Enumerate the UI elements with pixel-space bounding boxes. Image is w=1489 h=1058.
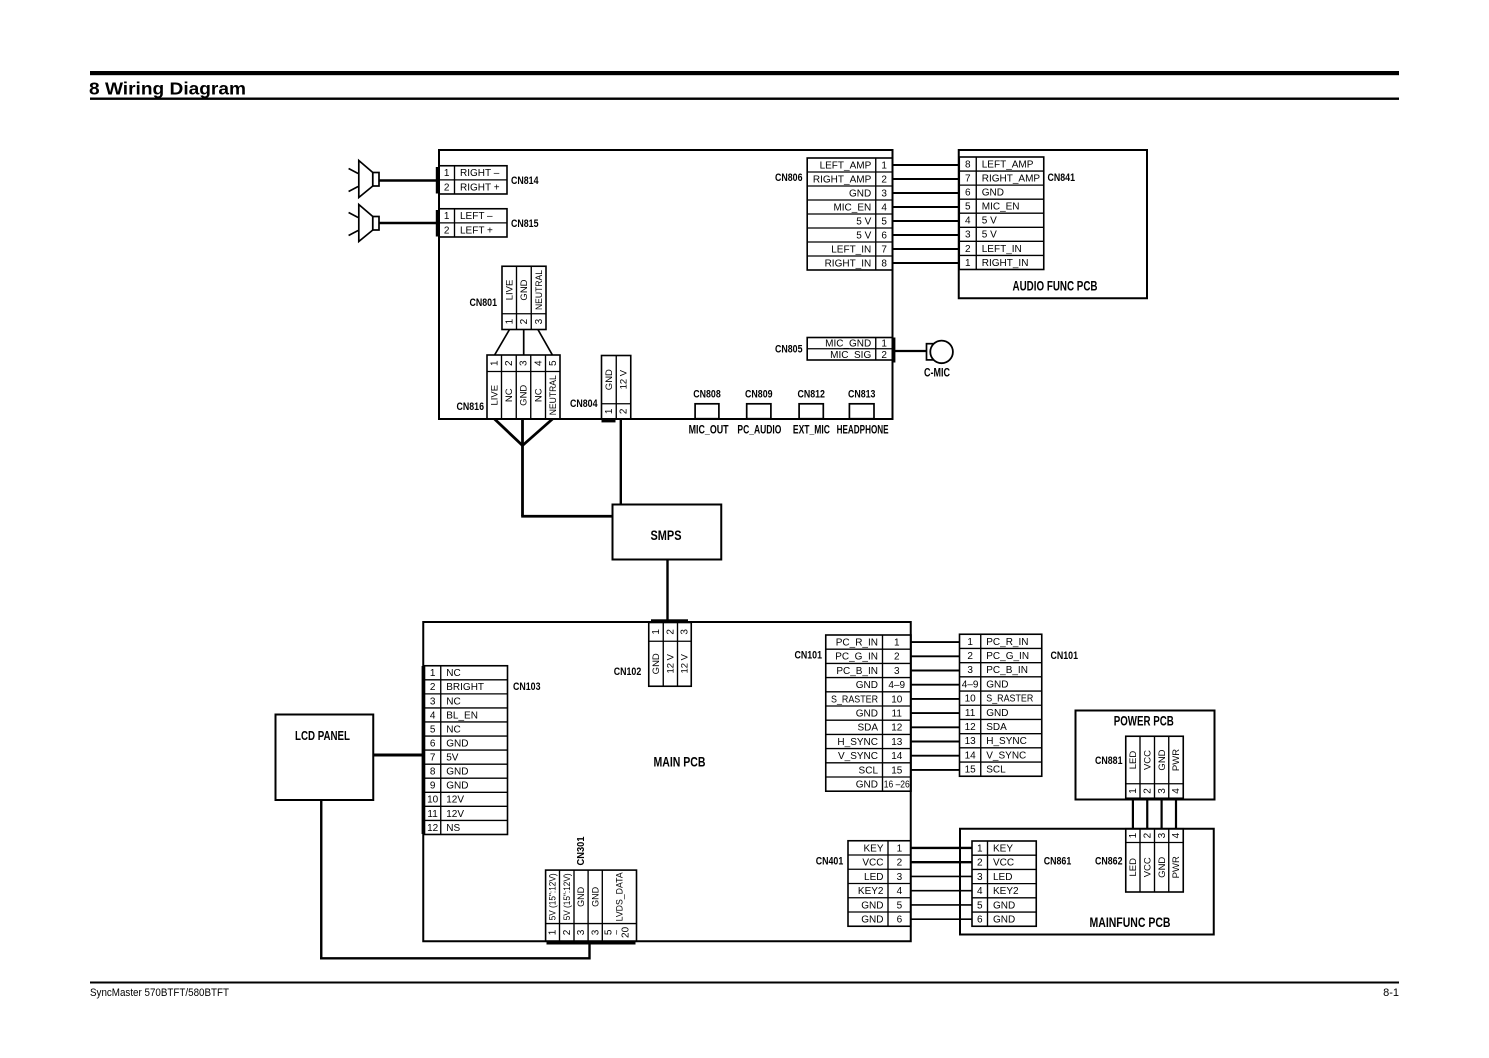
svg-text:SCL: SCL	[859, 765, 879, 776]
svg-text:NS: NS	[446, 823, 460, 834]
svg-text:PC_B_IN: PC_B_IN	[986, 665, 1028, 676]
svg-text:NC: NC	[446, 724, 460, 735]
svg-text:LIVE: LIVE	[504, 280, 515, 301]
svg-text:RIGHT +: RIGHT +	[460, 182, 500, 193]
svg-text:NC: NC	[533, 388, 544, 402]
svg-text:GND: GND	[986, 679, 1008, 690]
svg-text:16 –26: 16 –26	[884, 780, 910, 791]
connector CN862	[1126, 829, 1184, 892]
svg-text:12 V: 12 V	[619, 369, 630, 389]
svg-text:CN841: CN841	[1048, 172, 1076, 184]
svg-text:PWR: PWR	[1171, 749, 1182, 771]
svg-text:1: 1	[881, 160, 887, 171]
svg-text:5: 5	[977, 900, 983, 911]
speaker right channel	[349, 161, 379, 198]
svg-text:CN801: CN801	[470, 297, 498, 309]
page title: 8 Wiring Diagram	[89, 79, 246, 99]
svg-text:2: 2	[897, 858, 903, 869]
wire speaker right to CN814	[379, 179, 438, 181]
wire CN804 to SMPS	[620, 420, 622, 505]
svg-text:MAINFUNC PCB: MAINFUNC PCB	[1090, 915, 1171, 930]
svg-text:GND: GND	[519, 385, 530, 406]
svg-text:HEADPHONE: HEADPHONE	[837, 423, 889, 437]
svg-text:NEUTRAL: NEUTRAL	[548, 375, 559, 415]
svg-text:SMPS: SMPS	[651, 528, 682, 543]
svg-text:7: 7	[965, 173, 971, 184]
connector CN801	[502, 266, 546, 329]
svg-text:RIGHT –: RIGHT –	[460, 168, 500, 179]
svg-text:VCC: VCC	[1142, 750, 1153, 770]
svg-text:CN101: CN101	[795, 650, 823, 662]
svg-text:SyncMaster 570BTFT/580BTFT: SyncMaster 570BTFT/580BTFT	[90, 987, 229, 999]
label CN841	[1048, 172, 1076, 184]
svg-text:V_SYNC: V_SYNC	[986, 750, 1026, 761]
svg-text:CN808: CN808	[693, 389, 721, 401]
svg-text:GND: GND	[590, 886, 600, 907]
svg-text:3: 3	[965, 230, 971, 241]
svg-text:CN881: CN881	[1095, 755, 1123, 767]
svg-text:CN301: CN301	[575, 836, 587, 865]
svg-text:3: 3	[534, 318, 545, 324]
svg-text:PC_R_IN: PC_R_IN	[836, 638, 878, 649]
label CN881	[1095, 755, 1123, 767]
label AUDIO FUNC PCB	[1013, 279, 1098, 294]
svg-text:CN103: CN103	[513, 681, 541, 693]
svg-text:4: 4	[430, 710, 436, 721]
label CN812	[797, 389, 825, 401]
svg-text:6: 6	[881, 230, 887, 241]
label CN809	[745, 389, 773, 401]
svg-text:7: 7	[430, 753, 436, 764]
svg-text:5 V: 5 V	[856, 216, 871, 227]
svg-text:LED: LED	[1128, 858, 1139, 877]
svg-text:PC_R_IN: PC_R_IN	[986, 637, 1028, 648]
svg-text:3: 3	[519, 360, 530, 366]
svg-text:PC_AUDIO: PC_AUDIO	[737, 423, 781, 437]
svg-text:12 V: 12 V	[680, 653, 691, 673]
svg-text:GND: GND	[993, 915, 1015, 926]
svg-text:2: 2	[619, 408, 630, 414]
svg-text:5: 5	[548, 360, 559, 366]
svg-text:SDA: SDA	[986, 722, 1007, 733]
svg-text:CN809: CN809	[745, 389, 773, 401]
svg-text:8-1: 8-1	[1383, 987, 1399, 999]
svg-text:GND: GND	[1157, 749, 1168, 770]
svg-text:12: 12	[427, 823, 439, 834]
svg-text:GND: GND	[576, 886, 586, 907]
svg-text:3: 3	[1157, 832, 1168, 838]
svg-text:1: 1	[604, 408, 615, 414]
CN804 plug bar	[602, 419, 616, 422]
connector CN814	[439, 166, 507, 194]
label CN808	[693, 389, 721, 401]
svg-text:MIC_GND: MIC_GND	[825, 339, 871, 350]
svg-text:PWR: PWR	[1171, 856, 1182, 878]
svg-text:4: 4	[1171, 832, 1182, 838]
svg-text:4: 4	[897, 886, 903, 897]
svg-text:4: 4	[977, 886, 983, 897]
label MAINFUNC PCB	[1090, 915, 1171, 930]
svg-text:6: 6	[897, 915, 903, 926]
AUDIO FUNC PCB box	[959, 150, 1147, 298]
connector CN815 plug bar	[436, 210, 439, 237]
svg-text:CN812: CN812	[797, 389, 825, 401]
svg-text:V_SYNC: V_SYNC	[838, 751, 878, 762]
svg-text:10: 10	[891, 694, 903, 705]
LCD PANEL box	[276, 715, 374, 801]
label CN101 left	[795, 650, 823, 662]
svg-text:4–9: 4–9	[888, 680, 905, 691]
wires CN401 to CN861	[911, 848, 972, 919]
svg-text:RIGHT_AMP: RIGHT_AMP	[982, 173, 1041, 184]
svg-text:1: 1	[881, 339, 887, 350]
svg-text:POWER PCB: POWER PCB	[1114, 714, 1174, 729]
svg-text:LEFT_AMP: LEFT_AMP	[820, 160, 872, 171]
label LCD PANEL	[295, 728, 350, 743]
svg-text:NC: NC	[446, 668, 460, 679]
CN103 plug bar	[422, 666, 425, 834]
svg-text:2: 2	[504, 360, 515, 366]
svg-text:4: 4	[533, 360, 544, 366]
svg-text:PC_G_IN: PC_G_IN	[986, 651, 1029, 662]
svg-text:5 V: 5 V	[982, 216, 997, 227]
svg-text:20: 20	[621, 926, 632, 938]
svg-text:LEFT –: LEFT –	[460, 211, 493, 222]
svg-text:KEY: KEY	[993, 844, 1013, 855]
label EXT_MIC	[793, 423, 830, 437]
svg-text:5 V: 5 V	[856, 230, 871, 241]
connector CN881	[1126, 736, 1184, 798]
svg-text:5: 5	[430, 724, 436, 735]
svg-text:KEY2: KEY2	[993, 886, 1019, 897]
connector CN841	[959, 157, 1044, 269]
svg-text:8: 8	[430, 767, 436, 778]
svg-text:H_SYNC: H_SYNC	[837, 737, 878, 748]
svg-text:5: 5	[965, 202, 971, 213]
svg-text:2: 2	[881, 174, 887, 185]
connector CN804	[602, 356, 631, 420]
svg-text:5: 5	[881, 216, 887, 227]
svg-text:2: 2	[967, 651, 973, 662]
svg-text:NEUTRAL: NEUTRAL	[534, 270, 545, 310]
svg-text:3: 3	[881, 188, 887, 199]
svg-text:7: 7	[881, 244, 887, 255]
svg-text:MIC_EN: MIC_EN	[982, 202, 1020, 213]
svg-text:LEFT_IN: LEFT_IN	[982, 244, 1022, 255]
wire CN805 to C-MIC	[895, 350, 927, 352]
svg-text:GND: GND	[519, 279, 530, 300]
svg-text:RIGHT_IN: RIGHT_IN	[982, 258, 1029, 269]
svg-text:10: 10	[427, 795, 439, 806]
svg-text:LED: LED	[864, 872, 883, 883]
svg-text:LED: LED	[1128, 751, 1139, 770]
svg-text:GND: GND	[861, 900, 883, 911]
svg-text:15: 15	[965, 765, 977, 776]
svg-text:4: 4	[881, 202, 887, 213]
svg-text:2: 2	[444, 182, 450, 193]
svg-text:GND: GND	[1157, 857, 1168, 878]
svg-text:AUDIO FUNC PCB: AUDIO FUNC PCB	[1013, 279, 1098, 294]
svg-text:LCD PANEL: LCD PANEL	[295, 728, 350, 743]
svg-text:4: 4	[965, 216, 971, 227]
speaker left channel	[349, 205, 379, 242]
svg-text:MIC_EN: MIC_EN	[833, 202, 871, 213]
svg-text:LED: LED	[993, 872, 1012, 883]
wires CN881 to CN862	[1133, 798, 1176, 829]
jack CN808	[695, 404, 719, 419]
svg-text:2: 2	[977, 858, 983, 869]
svg-text:1: 1	[651, 629, 662, 635]
svg-text:6: 6	[430, 738, 436, 749]
jack CN813	[849, 404, 874, 419]
connector CN805	[807, 338, 892, 361]
svg-text:S_RASTER: S_RASTER	[831, 694, 878, 705]
svg-text:2: 2	[894, 652, 900, 663]
svg-text:1: 1	[894, 638, 900, 649]
wire speaker left to CN815	[379, 222, 438, 224]
svg-text:13: 13	[965, 736, 977, 747]
label CN103	[513, 681, 541, 693]
svg-text:4: 4	[1171, 788, 1182, 794]
svg-text:3: 3	[1157, 788, 1168, 794]
svg-text:2: 2	[1142, 788, 1153, 794]
svg-text:KEY2: KEY2	[858, 886, 884, 897]
connector CN101 (main pcb)	[826, 635, 911, 791]
svg-text:GND: GND	[446, 781, 468, 792]
wire LCD PANEL to CN301	[320, 800, 590, 960]
wires CN101 to CN101	[911, 642, 960, 770]
svg-text:3: 3	[680, 629, 691, 635]
label MIC_OUT	[689, 423, 729, 437]
label C-MIC	[924, 368, 950, 380]
svg-text:GND: GND	[986, 708, 1008, 719]
label PC_AUDIO	[737, 423, 781, 437]
svg-text:GND: GND	[446, 767, 468, 778]
connector CN816	[487, 355, 560, 419]
label CN816	[457, 401, 485, 413]
label CN805	[775, 344, 803, 356]
connector CN102	[649, 623, 692, 687]
svg-text:2: 2	[965, 244, 971, 255]
svg-text:BL_EN: BL_EN	[446, 710, 478, 721]
svg-text:GND: GND	[604, 369, 615, 390]
svg-text:3: 3	[430, 696, 436, 707]
label CN401	[816, 856, 844, 868]
CN301 plug bar	[547, 941, 636, 944]
footer rule	[90, 982, 1399, 984]
svg-text:LVDS_DATA: LVDS_DATA	[615, 872, 625, 921]
label CN813	[848, 389, 876, 401]
label HEADPHONE	[837, 423, 889, 437]
svg-text:MIC_OUT: MIC_OUT	[689, 423, 729, 437]
CN805 plug bar	[892, 338, 895, 363]
svg-text:5 V: 5 V	[982, 230, 997, 241]
svg-text:CN862: CN862	[1095, 856, 1123, 868]
svg-text:NC: NC	[446, 696, 460, 707]
label MAIN PCB	[654, 754, 706, 769]
footer model text	[90, 987, 229, 999]
label CN301 rotated	[575, 836, 587, 865]
svg-text:NC: NC	[504, 388, 515, 402]
SMPS box	[613, 505, 722, 560]
svg-text:12 V: 12 V	[666, 653, 677, 673]
svg-text:1: 1	[548, 929, 559, 935]
svg-text:5V (15":12V): 5V (15":12V)	[562, 873, 572, 920]
svg-text:GND: GND	[446, 738, 468, 749]
wire LCD PANEL to CN103	[373, 754, 424, 757]
svg-text:LEFT +: LEFT +	[460, 225, 493, 236]
svg-text:9: 9	[430, 781, 436, 792]
svg-text:GND: GND	[651, 653, 662, 674]
svg-text:2: 2	[666, 629, 677, 635]
label POWER PCB	[1114, 714, 1174, 729]
svg-text:KEY: KEY	[863, 843, 883, 854]
svg-text:1: 1	[977, 844, 983, 855]
svg-text:GND: GND	[856, 709, 878, 720]
svg-text:SCL: SCL	[986, 765, 1006, 776]
C-MIC microphone symbol	[927, 341, 953, 364]
svg-text:CN861: CN861	[1044, 856, 1072, 868]
svg-text:C-MIC: C-MIC	[924, 368, 950, 380]
connector CN814 plug bar	[436, 167, 439, 194]
svg-text:CN102: CN102	[614, 666, 642, 678]
page title bar	[90, 71, 1399, 75]
svg-text:13: 13	[891, 737, 903, 748]
svg-text:CN813: CN813	[848, 389, 876, 401]
svg-text:14: 14	[965, 750, 977, 761]
svg-text:CN814: CN814	[511, 175, 539, 187]
svg-text:5V: 5V	[446, 753, 459, 764]
svg-text:3: 3	[977, 872, 983, 883]
svg-text:1: 1	[504, 318, 515, 324]
svg-text:VCC: VCC	[993, 858, 1014, 869]
svg-text:GND: GND	[982, 188, 1004, 199]
svg-text:1: 1	[897, 843, 903, 854]
label CN815	[511, 218, 539, 230]
svg-text:LEFT_AMP: LEFT_AMP	[982, 159, 1034, 170]
svg-text:2: 2	[444, 225, 450, 236]
svg-text:1: 1	[430, 668, 436, 679]
svg-text:RIGHT_AMP: RIGHT_AMP	[813, 174, 872, 185]
svg-text:3: 3	[590, 929, 601, 935]
svg-text:CN806: CN806	[775, 172, 803, 184]
label CN806	[775, 172, 803, 184]
wires CN806 to CN841	[893, 165, 960, 263]
svg-text:2: 2	[430, 682, 436, 693]
svg-text:11: 11	[965, 708, 976, 719]
connector CN815	[439, 209, 507, 237]
svg-text:SDA: SDA	[857, 723, 878, 734]
MAIN PCB box	[423, 622, 911, 941]
wires CN801 to CN816	[495, 330, 553, 356]
svg-text:PC_G_IN: PC_G_IN	[835, 652, 878, 663]
svg-text:3: 3	[894, 666, 900, 677]
svg-text:1: 1	[967, 637, 973, 648]
svg-text:5V (15":12V): 5V (15":12V)	[548, 873, 558, 920]
wires CN816 merge to SMPS	[495, 419, 613, 516]
wire SMPS to CN102	[666, 560, 668, 623]
connector CN103	[425, 666, 508, 835]
svg-text:8: 8	[965, 159, 971, 170]
AUDIO main PCB outline box	[439, 150, 893, 419]
svg-text:BRIGHT: BRIGHT	[446, 682, 484, 693]
svg-text:GND: GND	[849, 188, 871, 199]
svg-text:15: 15	[891, 765, 903, 776]
jack CN812	[799, 404, 823, 419]
svg-text:CN805: CN805	[775, 344, 803, 356]
svg-text:1: 1	[489, 360, 500, 366]
svg-text:1: 1	[444, 168, 450, 179]
svg-text:1: 1	[444, 211, 450, 222]
svg-text:GND: GND	[993, 900, 1015, 911]
svg-text:CN101: CN101	[1051, 650, 1079, 662]
CN301 pin 5~20 numbers	[604, 926, 632, 938]
svg-text:3: 3	[576, 929, 587, 935]
title underline	[90, 98, 1399, 100]
svg-text:3: 3	[967, 665, 973, 676]
svg-text:1: 1	[1128, 788, 1139, 794]
svg-text:H_SYNC: H_SYNC	[986, 736, 1027, 747]
label SMPS	[651, 528, 682, 543]
svg-text:GND: GND	[861, 915, 883, 926]
svg-text:RIGHT_IN: RIGHT_IN	[825, 258, 872, 269]
svg-text:5: 5	[897, 900, 903, 911]
svg-text:LEFT_IN: LEFT_IN	[831, 244, 871, 255]
svg-text:11: 11	[892, 709, 903, 720]
svg-text:11: 11	[427, 809, 438, 820]
svg-text:2: 2	[1142, 832, 1153, 838]
svg-text:2: 2	[562, 929, 573, 935]
svg-text:12V: 12V	[446, 795, 464, 806]
label CN862	[1095, 856, 1123, 868]
svg-text:12: 12	[891, 723, 903, 734]
CN102 plug bar	[651, 619, 688, 622]
svg-text:GND: GND	[856, 680, 878, 691]
svg-text:1: 1	[965, 258, 971, 269]
label CN801	[470, 297, 498, 309]
svg-text:MAIN PCB: MAIN PCB	[654, 754, 706, 769]
svg-text:12V: 12V	[446, 809, 464, 820]
svg-text:GND: GND	[856, 780, 878, 791]
connector CN861	[972, 841, 1036, 926]
label CN101 right	[1051, 650, 1079, 662]
MAINFUNC PCB box	[960, 829, 1214, 935]
connector CN301	[546, 870, 637, 941]
svg-text:2: 2	[519, 318, 530, 324]
svg-text:CN816: CN816	[457, 401, 485, 413]
svg-text:CN401: CN401	[816, 856, 844, 868]
svg-text:8 Wiring Diagram: 8 Wiring Diagram	[89, 79, 246, 99]
svg-text:14: 14	[891, 751, 903, 762]
svg-text:PC_B_IN: PC_B_IN	[836, 666, 878, 677]
svg-text:1: 1	[1128, 832, 1139, 838]
jack CN809	[747, 404, 771, 419]
svg-text:8: 8	[881, 258, 887, 269]
svg-text:4–9: 4–9	[962, 679, 979, 690]
label CN804	[570, 398, 598, 410]
svg-text:LIVE: LIVE	[489, 385, 500, 406]
label CN102	[614, 666, 642, 678]
svg-text:VCC: VCC	[862, 858, 883, 869]
label CN814	[511, 175, 539, 187]
svg-text:VCC: VCC	[1142, 857, 1153, 877]
svg-text:2: 2	[881, 350, 887, 361]
svg-text:S_RASTER: S_RASTER	[986, 694, 1033, 705]
svg-text:MIC_SIG: MIC_SIG	[830, 350, 871, 361]
svg-text:CN804: CN804	[570, 398, 598, 410]
svg-text:6: 6	[977, 915, 983, 926]
svg-text:12: 12	[965, 722, 977, 733]
